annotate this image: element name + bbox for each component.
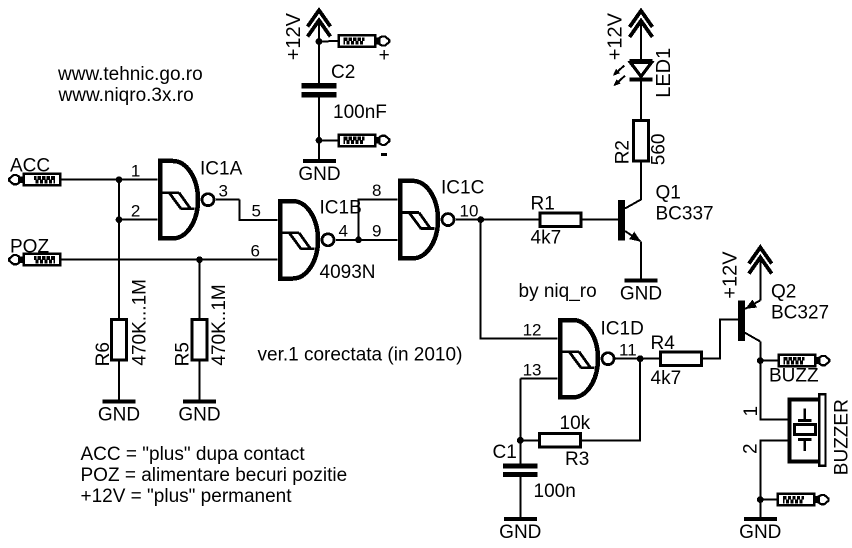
wire node to C1: [519, 440, 521, 463]
wire branch to IC1C pin8: [359, 200, 398, 240]
resistor R3: [540, 434, 581, 447]
svg-text:GND: GND: [98, 405, 140, 426]
power symbol +12V (Q2): [749, 247, 772, 273]
svg-text:4k7: 4k7: [651, 368, 682, 389]
ground (Q1): [620, 278, 662, 304]
wire IC1D output pin11 to R4: [616, 358, 661, 360]
wire to buzzer pin1: [760, 361, 789, 420]
svg-text:www.niqro.3x.ro: www.niqro.3x.ro: [58, 85, 194, 106]
wire C2 bottom to ground: [318, 97, 320, 158]
wire to IC1D pin13: [520, 378, 557, 380]
svg-text:10k: 10k: [560, 413, 591, 434]
svg-text:GND: GND: [499, 522, 541, 543]
svg-text:R1: R1: [531, 194, 555, 215]
junction node 10: [477, 216, 484, 223]
wire IC1B output pin4 to pin9: [336, 239, 398, 241]
svg-text:+12V: +12V: [605, 12, 627, 60]
ground (R6): [98, 399, 140, 425]
svg-text:11: 11: [619, 340, 637, 359]
wire +12V to Q2 emitter: [759, 257, 761, 300]
svg-text:12: 12: [523, 321, 542, 340]
wire POZ to IC1B pin6: [60, 259, 278, 261]
resistor R5: [192, 320, 207, 361]
svg-text:www.tehnic.go.ro: www.tehnic.go.ro: [57, 64, 203, 85]
resistor R6: [112, 320, 127, 361]
svg-text:BC337: BC337: [656, 203, 714, 224]
svg-text:GND: GND: [739, 522, 781, 543]
svg-text:4k7: 4k7: [531, 228, 562, 249]
wire C1 to ground: [519, 477, 521, 517]
svg-text:+12V = "plus" permanent: +12V = "plus" permanent: [81, 486, 293, 507]
svg-text:4: 4: [339, 221, 348, 240]
svg-text:470K..1M: 470K..1M: [209, 284, 230, 365]
resistor R4: [661, 352, 702, 365]
wire pin13 down to C1 node: [519, 379, 521, 441]
svg-text:GND: GND: [620, 284, 662, 305]
ground (R5): [178, 399, 220, 425]
svg-text:100nF: 100nF: [333, 102, 387, 123]
junction C2/GND connector: [316, 137, 323, 144]
wire pin3 to IC1B pin5: [240, 200, 278, 220]
svg-text:100n: 100n: [534, 481, 576, 502]
transistor Q1: [618, 200, 641, 242]
op NAND gate IC1B: [280, 201, 334, 278]
svg-text:BC327: BC327: [771, 303, 829, 324]
wire R6 to ground: [118, 360, 120, 399]
svg-text:POZ = alimentare becuri poziti: POZ = alimentare becuri pozitie: [81, 465, 348, 486]
ground (bottom): [739, 517, 781, 543]
wire to bottom connector: [760, 499, 778, 501]
wire to BUZZ connector: [760, 360, 778, 362]
junction pin 11 node: [637, 355, 644, 362]
wire to minus connector: [319, 139, 339, 141]
svg-text:8: 8: [372, 181, 381, 200]
svg-text:R3: R3: [565, 449, 589, 470]
junction Q2 collector: [757, 357, 764, 364]
svg-text:BUZZER: BUZZER: [831, 399, 852, 475]
svg-text:Q1: Q1: [656, 183, 681, 204]
junction IC1B output: [355, 236, 362, 243]
connector BUZZ: [779, 355, 830, 367]
svg-text:R4: R4: [651, 333, 676, 354]
svg-text:6: 6: [251, 241, 260, 260]
op NAND gate IC1D: [560, 320, 614, 397]
connector POZ: [9, 254, 60, 266]
power symbol +12V (C2 rail): [308, 10, 331, 36]
wire Q1 collector to R2: [625, 161, 641, 209]
svg-text:Q2: Q2: [771, 282, 796, 303]
wire ACC node down to R6: [118, 180, 120, 320]
wire R1 to Q1 base: [581, 219, 618, 221]
wire to bottom ground: [759, 500, 761, 517]
junction ACC node: [116, 176, 123, 183]
svg-text:IC1D: IC1D: [601, 318, 644, 339]
wire node 10 down to IC1D pin12: [481, 220, 558, 339]
svg-text:ver.1 corectata (in 2010): ver.1 corectata (in 2010): [258, 345, 463, 366]
connector plus (supply): [339, 35, 390, 47]
svg-text:R6: R6: [93, 342, 114, 366]
svg-text:13: 13: [523, 361, 542, 380]
transistor Q2: [738, 300, 760, 342]
junction pin2 branch: [116, 216, 123, 223]
svg-text:2: 2: [131, 201, 140, 220]
svg-text:+: +: [379, 45, 390, 66]
svg-text:+12V: +12V: [720, 251, 742, 299]
junction +12V/C2: [316, 38, 323, 45]
wire POZ node down to R5: [199, 260, 201, 320]
svg-text:9: 9: [372, 221, 381, 240]
ground (C2): [298, 159, 340, 185]
wire LED to R2: [640, 81, 642, 120]
svg-text:IC1B: IC1B: [320, 197, 362, 218]
svg-text:10: 10: [460, 201, 479, 220]
buzzer BUZZER: [790, 394, 826, 466]
svg-text:BUZZ: BUZZ: [769, 366, 819, 387]
capacitor C2: [302, 83, 337, 97]
wire to IC1A pin2: [119, 219, 158, 221]
svg-text:4093N: 4093N: [320, 262, 376, 283]
op NAND gate IC1C: [400, 181, 454, 258]
wire R5 to ground: [199, 360, 201, 399]
wire ACC to IC1A pin1: [60, 179, 158, 181]
connector minus (supply): [339, 135, 390, 147]
wire Q1 emitter to ground: [640, 241, 642, 278]
connector ACC: [9, 174, 60, 186]
svg-text:470K...1M: 470K...1M: [129, 279, 150, 366]
wire to plus connector: [319, 40, 339, 43]
resistor R1: [540, 213, 581, 226]
svg-text:560: 560: [648, 133, 669, 165]
wire R3 to C1 node: [520, 439, 539, 441]
label - polarity: [381, 153, 387, 156]
svg-text:ACC = "plus" dupa contact: ACC = "plus" dupa contact: [81, 444, 306, 465]
ground (C1): [499, 517, 541, 543]
svg-text:+12V: +12V: [283, 12, 305, 60]
svg-text:1: 1: [741, 406, 762, 417]
svg-text:IC1A: IC1A: [200, 159, 243, 180]
svg-text:5: 5: [252, 202, 261, 221]
junction bottom: [757, 496, 764, 503]
LED LED1: [613, 59, 653, 86]
svg-text:C1: C1: [493, 442, 517, 463]
connector bottom (GND return): [778, 494, 829, 506]
op NAND gate IC1A: [160, 161, 214, 238]
svg-text:1: 1: [131, 161, 140, 180]
wire buzzer pin2 down: [760, 440, 789, 499]
wire Q2 collector down: [759, 342, 761, 361]
svg-text:C2: C2: [331, 62, 355, 83]
svg-text:GND: GND: [178, 405, 220, 426]
capacitor C1: [503, 463, 538, 477]
junction C1/R3: [517, 437, 524, 444]
svg-text:IC1C: IC1C: [441, 178, 484, 199]
wire +12V to LED: [640, 21, 642, 60]
power symbol +12V (LED): [630, 11, 653, 37]
junction POZ node: [196, 256, 203, 263]
resistor R2: [634, 120, 649, 161]
wire +12V rail to C2 top: [318, 21, 320, 84]
wire R4 to Q2 base: [702, 319, 739, 358]
svg-text:R5: R5: [173, 342, 194, 366]
wire pin11 node down to R3: [581, 359, 641, 441]
svg-text:R2: R2: [613, 140, 634, 164]
svg-text:LED1: LED1: [653, 48, 675, 98]
wire IC1A output pin3: [216, 199, 240, 201]
wire IC1C output pin10 to R1: [456, 219, 540, 221]
svg-text:GND: GND: [298, 164, 340, 185]
svg-text:3: 3: [219, 181, 228, 200]
svg-text:by niq_ro: by niq_ro: [519, 281, 597, 302]
svg-text:2: 2: [741, 443, 762, 454]
